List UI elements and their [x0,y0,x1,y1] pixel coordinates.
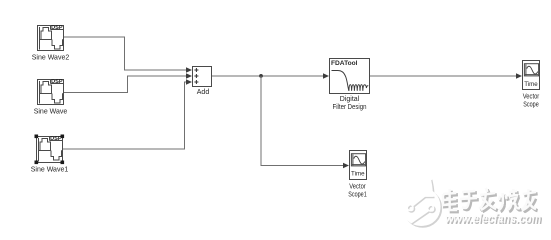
arrowhead into Digital Filter Design [323,73,329,79]
selection handles on Sine Wave1 [35,135,65,165]
plus sign input 2 [194,74,198,78]
plus sign input 3 [194,80,198,84]
label Vector Scope1 [348,184,367,199]
svg-text:DSP: DSP [51,25,63,31]
svg-text:Digital: Digital [340,96,360,103]
wire: Sine Wave output to bend [64,76,187,93]
svg-text:Time: Time [351,171,365,178]
block Digital Filter Design (FDATool) [330,59,370,94]
arrowhead into Vector Scope [516,73,522,79]
block Vector Scope1 [350,151,367,180]
label Digital Filter Design [333,96,367,111]
label Time (Vector Scope) [524,81,538,88]
filter response curve [332,71,369,91]
scope screen curve (Vector Scope) [527,66,538,74]
label DSP on Sine Wave [51,79,63,85]
label DSP on Sine Wave1 [50,136,62,142]
junction dot on Add output wire [259,74,263,78]
svg-text:Filter Design: Filter Design [333,104,367,111]
svg-text:FDATool: FDATool [331,60,358,67]
svg-text:Sine Wave2: Sine Wave2 [32,55,70,62]
svg-text:DSP: DSP [51,79,63,85]
svg-text:Time: Time [524,81,538,88]
block Add [193,67,212,87]
watermark logo circle (elecfans) [403,180,442,227]
arrowhead into Vector Scope1 [343,163,349,169]
arrowhead into Add input 1 [186,67,192,73]
wire: Sine Wave1 output to bend [63,82,187,149]
label Sine Wave1 [31,167,69,174]
label Sine Wave [34,109,68,116]
watermark calligraphy 电子发烧友 [443,188,538,212]
label DSP on Sine Wave2 [51,25,63,31]
watermark url www.elecfans.com [445,211,542,226]
svg-text:www.elecfans.com: www.elecfans.com [445,211,541,225]
label Sine Wave2 [32,55,70,62]
svg-text:Scope: Scope [523,102,539,109]
svg-text:Add: Add [197,89,210,96]
block Vector Scope [523,61,540,90]
svg-text:Vector: Vector [523,94,540,101]
scope screen curve (Vector Scope1) [354,156,365,164]
wire: branch down to Vector Scope1 [261,76,344,166]
svg-text:Scope1: Scope1 [348,192,367,199]
label Time (Vector Scope1) [351,171,365,178]
wire: Digital Filter Design output to Vector Scope [370,75,517,77]
watermark logo circuit trace [407,196,435,224]
arrowhead into Add input 3 [186,79,192,85]
block Sine Wave1 (selected) [37,137,63,163]
label Vector Scope [523,94,540,109]
plus sign input 1 [194,68,198,72]
label FDATool [331,60,358,67]
svg-text:Sine Wave: Sine Wave [34,109,68,116]
block Sine Wave [38,80,64,105]
label Add [197,89,210,96]
block Sine Wave2 [38,26,64,51]
arrowhead into Add input 2 [186,73,192,79]
wire: Add output to Digital Filter Design [212,75,324,77]
wire: Sine Wave2 output to bend [64,37,187,70]
svg-text:Vector: Vector [349,184,366,191]
svg-text:Sine Wave1: Sine Wave1 [31,167,69,174]
